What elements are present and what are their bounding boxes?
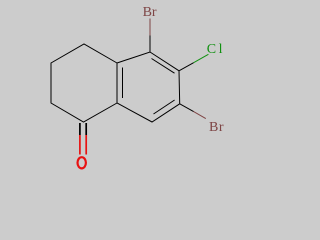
svg-text:Br: Br xyxy=(209,120,224,135)
aromatic inner line bottom-right edge xyxy=(154,100,175,114)
C=O double bond line 2 black half xyxy=(85,123,87,135)
svg-text:Br: Br xyxy=(143,5,157,20)
svg-text:Cl: Cl xyxy=(207,42,225,57)
bond to Cl: black half xyxy=(179,63,194,71)
aromatic inner line left edge xyxy=(122,68,124,99)
C=O double bond line 1 red half xyxy=(79,135,81,155)
bond to right Br: red half xyxy=(194,112,206,119)
C=O double bond line 2 red half xyxy=(85,135,87,155)
left ring xyxy=(51,44,117,122)
aromatic inner line top-right edge xyxy=(152,59,175,74)
O atom drawn as ellipse ring xyxy=(78,157,86,168)
C=O double bond line 1 black half xyxy=(79,123,81,135)
bond to top Br: red half xyxy=(149,19,151,36)
bond to Cl: green half xyxy=(194,54,209,62)
benzene ring xyxy=(117,52,180,122)
bond to right Br: black half xyxy=(180,104,194,112)
bond to top Br: black half xyxy=(149,36,151,53)
chemical structure: dibromo-chloro bicyclic ketone xyxy=(0,0,300,176)
